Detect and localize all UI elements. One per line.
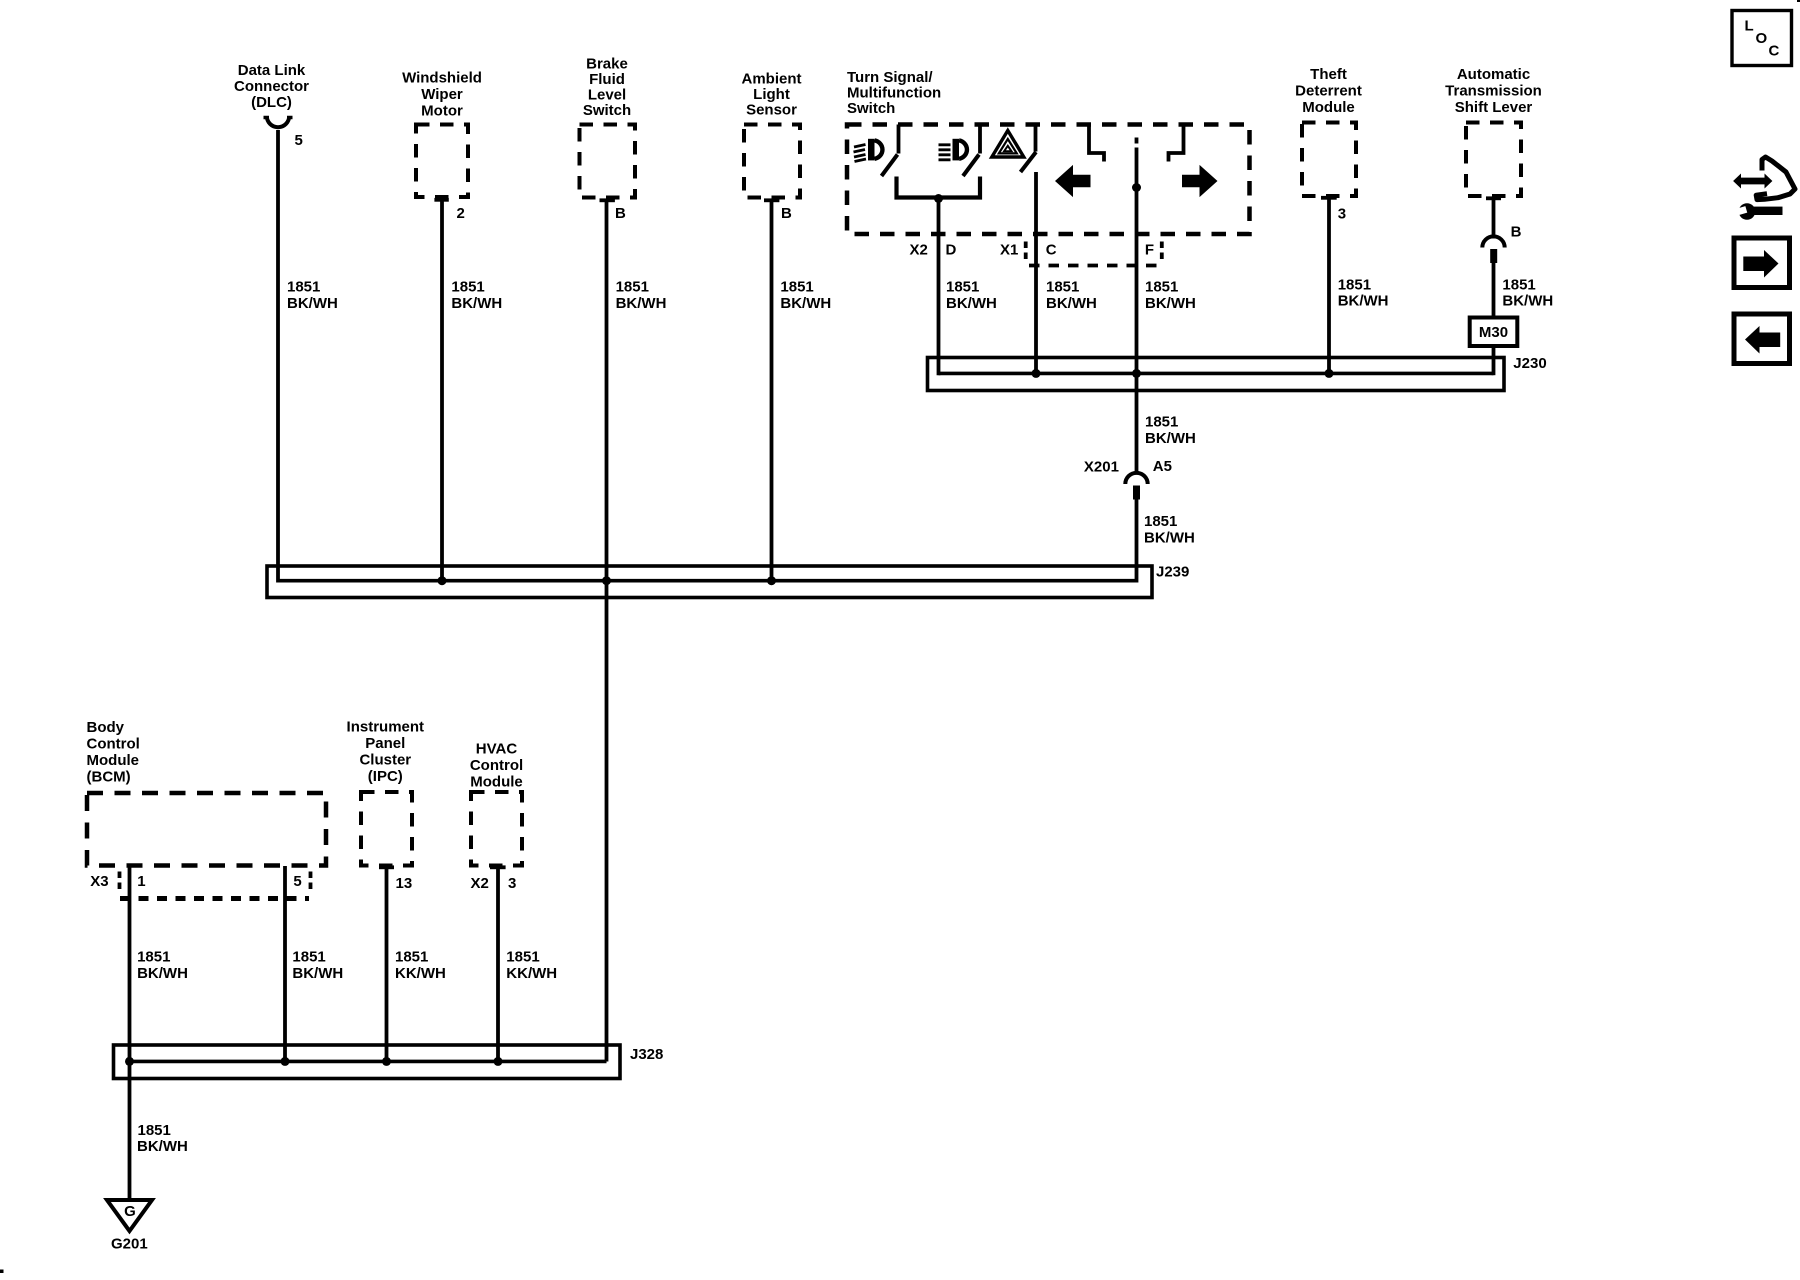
theft deterrent module title	[1295, 66, 1362, 116]
ambient light sensor box	[744, 125, 800, 198]
brake fluid level switch box	[580, 125, 636, 198]
wire value label 1851 BK/WH (J230 to X201)	[1145, 414, 1196, 448]
wiper motor pin stub	[434, 198, 448, 202]
svg-text:Cluster: Cluster	[359, 752, 411, 769]
splice pack J328 outer shell	[114, 1045, 621, 1079]
BCM X3 connector band bottom dashed line	[120, 896, 309, 901]
svg-text:Ambient: Ambient	[742, 71, 802, 88]
wire 1851 BK/WH ambient sensor to J239	[770, 200, 774, 581]
svg-text:Control: Control	[87, 736, 140, 753]
svg-text:HVAC: HVAC	[476, 741, 518, 758]
svg-text:Body: Body	[87, 719, 125, 736]
svg-text:B: B	[781, 205, 792, 222]
hazard warning icon (triangle)	[992, 131, 1024, 158]
brake fluid level switch title	[583, 56, 631, 120]
svg-text:X2: X2	[910, 242, 928, 259]
inline connector stub X201	[1133, 486, 1140, 500]
svg-text:(DLC): (DLC)	[251, 94, 292, 111]
svg-text:BK/WH: BK/WH	[946, 295, 997, 312]
svg-text:KK/WH: KK/WH	[395, 965, 446, 982]
svg-text:1851: 1851	[287, 279, 320, 296]
windshield wiper motor title	[402, 70, 482, 120]
svg-text:BK/WH: BK/WH	[1145, 295, 1196, 312]
svg-text:B: B	[615, 205, 626, 222]
svg-text:KK/WH: KK/WH	[506, 965, 557, 982]
svg-text:13: 13	[396, 875, 413, 892]
svg-text:BK/WH: BK/WH	[287, 295, 338, 312]
svg-text:1851: 1851	[138, 1122, 171, 1139]
wire 1851 BK/WH X201 to J239	[1135, 500, 1139, 583]
wire 1851 BK/WH switch pin F through J230 to X201	[1135, 234, 1139, 474]
svg-text:Switch: Switch	[847, 100, 895, 117]
svg-text:X2: X2	[471, 875, 489, 892]
pin F feed line inside switch	[1135, 151, 1139, 234]
low beam headlamp icon	[854, 139, 883, 162]
junction dot J328 BCM5	[281, 1057, 290, 1066]
svg-text:C: C	[1046, 242, 1057, 259]
low beam switch lever	[882, 155, 898, 177]
wire 1851 BK/WH switch pin C to J230	[1034, 172, 1038, 374]
page speck top right	[1797, 0, 1800, 2]
legend back arrow box	[1734, 314, 1790, 364]
wire 1851 BK/WH brake switch through J239 to J328	[605, 200, 609, 1061]
svg-text:BK/WH: BK/WH	[1046, 295, 1097, 312]
svg-text:1851: 1851	[1338, 277, 1371, 294]
wire value label 1851 BK/WH (DLC)	[287, 279, 338, 313]
svg-text:Automatic: Automatic	[1457, 66, 1530, 83]
svg-text:Deterrent: Deterrent	[1295, 83, 1362, 100]
svg-text:Shift Lever: Shift Lever	[1455, 99, 1533, 116]
ambient sensor pin stub	[764, 198, 779, 202]
IPC pin stub	[379, 865, 394, 869]
X1 pigtail dashed outline	[1026, 242, 1162, 266]
svg-text:Level: Level	[588, 87, 626, 104]
junction dot J328 IPC	[382, 1057, 391, 1066]
wire value label 1851 BK/WH (X201 to J239)	[1144, 513, 1195, 547]
svg-text:Sensor: Sensor	[746, 102, 797, 119]
svg-text:X201: X201	[1084, 459, 1119, 476]
svg-text:1851: 1851	[1145, 279, 1178, 296]
svg-text:1851: 1851	[946, 279, 979, 296]
junction dot J239 wiper	[438, 576, 447, 585]
svg-text:BK/WH: BK/WH	[292, 965, 343, 982]
low beam switch contact	[897, 125, 901, 154]
svg-text:Module: Module	[87, 752, 140, 769]
instrument panel cluster box	[361, 792, 412, 866]
wire value label 1851 BK/WH (wiper)	[451, 279, 502, 313]
splice pack J239 outer shell	[267, 566, 1152, 598]
svg-text:Light: Light	[753, 86, 790, 103]
wire 1851 KK/WH HVAC to J328	[496, 867, 500, 1061]
svg-text:J239: J239	[1156, 564, 1189, 581]
svg-text:J328: J328	[630, 1046, 663, 1063]
wire shift lever to inline connector	[1492, 198, 1496, 238]
HVAC control module title	[470, 741, 523, 791]
theft deterrent module box	[1302, 123, 1356, 197]
wire value label 1851 KK/WH (IPC)	[395, 949, 446, 983]
svg-text:C: C	[1769, 43, 1780, 60]
svg-text:BK/WH: BK/WH	[1144, 530, 1195, 547]
BCM X3 connector band left dashes	[118, 872, 122, 892]
headlamp common bracket to pin D	[897, 177, 981, 198]
splice pack J239 bus bar	[278, 579, 1137, 583]
wire value label 1851 BK/WH (BCM 1)	[137, 949, 188, 983]
left turn contact bracket	[1089, 125, 1104, 162]
page speck bottom left	[0, 1270, 4, 1274]
legend forward arrow box	[1734, 238, 1790, 288]
shift lever pin stub	[1486, 196, 1501, 200]
wire value label 1851 BK/WH (ambient)	[780, 279, 831, 313]
svg-text:BK/WH: BK/WH	[137, 965, 188, 982]
svg-text:2: 2	[457, 205, 465, 222]
ground symbol G	[107, 1200, 152, 1231]
wire value label 1851 KK/WH (HVAC)	[506, 949, 557, 983]
svg-text:1851: 1851	[1502, 277, 1535, 294]
svg-text:G201: G201	[111, 1236, 148, 1253]
splice pack J230 bus bar	[939, 372, 1494, 376]
svg-text:Brake: Brake	[586, 56, 628, 73]
svg-text:Transmission: Transmission	[1445, 83, 1542, 100]
junction dot J230 pin C	[1032, 369, 1041, 378]
svg-text:(IPC): (IPC)	[368, 768, 403, 785]
svg-text:BK/WH: BK/WH	[780, 295, 831, 312]
body control module title	[87, 719, 140, 786]
wire M30 to J230	[1492, 346, 1496, 375]
svg-text:X1: X1	[1000, 242, 1018, 259]
svg-text:1851: 1851	[395, 949, 428, 966]
svg-text:1: 1	[137, 873, 145, 890]
inline connector arc X201	[1125, 473, 1147, 484]
wire 1851 BK/WH switch pin D to J230	[937, 199, 941, 376]
ambient light sensor title	[742, 71, 802, 119]
junction dot J328 BCM1	[125, 1057, 134, 1066]
junction dot J230 pin F	[1132, 369, 1141, 378]
automatic transmission shift lever title	[1445, 66, 1542, 116]
svg-text:Instrument: Instrument	[347, 719, 425, 736]
windshield wiper motor box	[416, 125, 468, 198]
junction dot J239 ambient	[767, 576, 776, 585]
right turn arrow icon	[1182, 165, 1218, 197]
svg-text:Windshield: Windshield	[402, 70, 482, 87]
wire 1851 BK/WH BCM pin 5 to J328	[283, 866, 287, 1062]
svg-text:BK/WH: BK/WH	[451, 295, 502, 312]
wire 1851 BK/WH connector B to M30	[1492, 263, 1496, 318]
svg-text:A5: A5	[1153, 458, 1172, 475]
turn signal multifunction switch box	[847, 125, 1250, 235]
svg-text:Switch: Switch	[583, 102, 631, 119]
hazard switch contact	[1034, 125, 1038, 152]
turn signal / multifunction switch title	[847, 69, 941, 117]
svg-text:BK/WH: BK/WH	[1502, 293, 1553, 310]
svg-text:B: B	[1511, 224, 1522, 241]
svg-text:BK/WH: BK/WH	[137, 1138, 188, 1155]
inline connector arc (shift lever B)	[1482, 236, 1504, 247]
HVAC pin stub	[490, 865, 506, 869]
wire 1851 BK/WH from DLC pin 5 to splice J239	[276, 130, 280, 583]
brake switch pin stub	[600, 198, 615, 202]
left turn arrow icon	[1055, 165, 1091, 197]
wire value label 1851 BK/WH (pin C)	[1046, 279, 1097, 313]
wire 1851 BK/WH wiper motor to J239	[440, 200, 444, 581]
svg-text:1851: 1851	[1145, 414, 1178, 431]
svg-text:Module: Module	[1302, 99, 1355, 116]
automatic transmission shift lever box	[1466, 123, 1521, 197]
svg-text:1851: 1851	[616, 279, 649, 296]
svg-text:M30: M30	[1479, 324, 1508, 341]
svg-text:(BCM): (BCM)	[87, 769, 131, 786]
svg-text:D: D	[946, 242, 957, 259]
svg-text:Control: Control	[470, 757, 523, 774]
BCM X3 connector band right dashes	[309, 872, 313, 892]
hazard switch lever	[1021, 152, 1037, 172]
svg-text:5: 5	[295, 132, 303, 149]
svg-text:X3: X3	[90, 873, 108, 890]
splice pack J230 outer shell	[928, 358, 1505, 391]
wire value label 1851 BK/WH (theft)	[1338, 277, 1389, 310]
legend LOC box	[1732, 11, 1792, 66]
right turn contact bracket	[1169, 125, 1184, 162]
wire 1851 BK/WH theft module to J230	[1327, 198, 1331, 374]
wire value label 1851 BK/WH (BCM 5)	[292, 949, 343, 983]
svg-text:3: 3	[508, 875, 516, 892]
svg-text:Motor: Motor	[421, 103, 463, 120]
wire value label 1851 BK/WH (pin F)	[1145, 279, 1196, 313]
high beam switch contact	[978, 125, 982, 154]
legend pointer and wrench icon	[1733, 157, 1795, 220]
svg-text:Connector: Connector	[234, 78, 309, 95]
turn signal linkage dashes above pin F line	[1135, 138, 1139, 152]
body control module box	[87, 793, 326, 866]
wire 1851 BK/WH BCM pin 1 through J328 to G201	[128, 866, 132, 1200]
theft module pin stub	[1321, 196, 1337, 200]
wire value label 1851 BK/WH (shift lever)	[1502, 277, 1553, 310]
grommet M30 box	[1470, 318, 1518, 347]
svg-text:Data Link: Data Link	[238, 62, 306, 79]
svg-text:Multifunction: Multifunction	[847, 85, 941, 102]
high beam switch lever	[963, 155, 979, 177]
svg-text:Wiper: Wiper	[421, 86, 463, 103]
svg-text:J230: J230	[1513, 355, 1546, 372]
svg-text:BK/WH: BK/WH	[616, 295, 667, 312]
svg-text:3: 3	[1338, 206, 1346, 223]
svg-text:BK/WH: BK/WH	[1338, 293, 1389, 310]
svg-text:1851: 1851	[1046, 279, 1079, 296]
svg-text:Theft: Theft	[1310, 66, 1347, 83]
svg-text:Module: Module	[470, 774, 523, 791]
svg-text:1851: 1851	[1144, 513, 1177, 530]
svg-text:Turn Signal/: Turn Signal/	[847, 69, 933, 86]
svg-text:BK/WH: BK/WH	[1145, 430, 1196, 447]
connector DLC (Data Link Connector) title	[234, 62, 309, 111]
svg-text:G: G	[124, 1203, 136, 1220]
svg-text:1851: 1851	[780, 279, 813, 296]
splice pack J328 bus bar	[130, 1060, 607, 1064]
junction dot turn feed	[1132, 183, 1141, 192]
svg-text:1851: 1851	[292, 949, 325, 966]
inline connector stub (shift lever B)	[1490, 249, 1497, 263]
wire value label 1851 BK/WH (ground wire)	[137, 1122, 188, 1155]
svg-text:1851: 1851	[137, 949, 170, 966]
svg-text:Panel: Panel	[365, 735, 405, 752]
svg-text:1851: 1851	[506, 949, 539, 966]
junction dot pin D feed	[934, 194, 943, 203]
svg-text:1851: 1851	[451, 279, 484, 296]
svg-text:L: L	[1745, 18, 1754, 35]
junction dot J239 brake	[602, 576, 611, 585]
junction dot J230 theft	[1325, 369, 1334, 378]
wire value label 1851 BK/WH (brake)	[616, 279, 667, 313]
HVAC control module box	[471, 792, 522, 866]
high beam headlamp icon	[939, 139, 967, 161]
wire value label 1851 BK/WH (pin D)	[946, 279, 997, 313]
svg-text:Fluid: Fluid	[589, 71, 625, 88]
junction dot J328 HVAC	[494, 1057, 503, 1066]
svg-text:O: O	[1756, 30, 1768, 47]
svg-text:5: 5	[293, 873, 301, 890]
wire 1851 KK/WH IPC to J328	[385, 867, 389, 1061]
instrument panel cluster title	[347, 719, 425, 786]
svg-text:F: F	[1145, 242, 1154, 259]
connector DLC cup symbol	[264, 116, 293, 127]
